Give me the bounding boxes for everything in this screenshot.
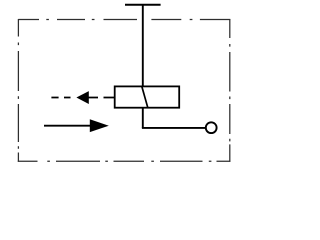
actuation arrowhead (points left) xyxy=(76,91,88,104)
wire: T-bar down to valve box xyxy=(142,5,144,87)
enclosure dash-dot border (right side) xyxy=(229,19,231,162)
dashed actuation line into valve box xyxy=(51,97,114,99)
wire: bottom run to output terminal xyxy=(142,127,205,129)
enclosure dash-dot border (bottom side) xyxy=(18,160,231,162)
enclosure dash-dot border (top side) xyxy=(18,19,230,21)
flow arrow shaft (points right) xyxy=(44,125,91,127)
valve/relay box xyxy=(115,86,180,107)
enclosure dash-dot border (left side) xyxy=(17,19,19,162)
output terminal circle xyxy=(206,122,217,133)
flow arrowhead (points right) xyxy=(90,119,109,132)
diagonal stroke inside valve box xyxy=(142,86,148,107)
wire: valve box bottom down xyxy=(142,108,144,128)
terminal T-bar (top rail) xyxy=(125,4,161,6)
